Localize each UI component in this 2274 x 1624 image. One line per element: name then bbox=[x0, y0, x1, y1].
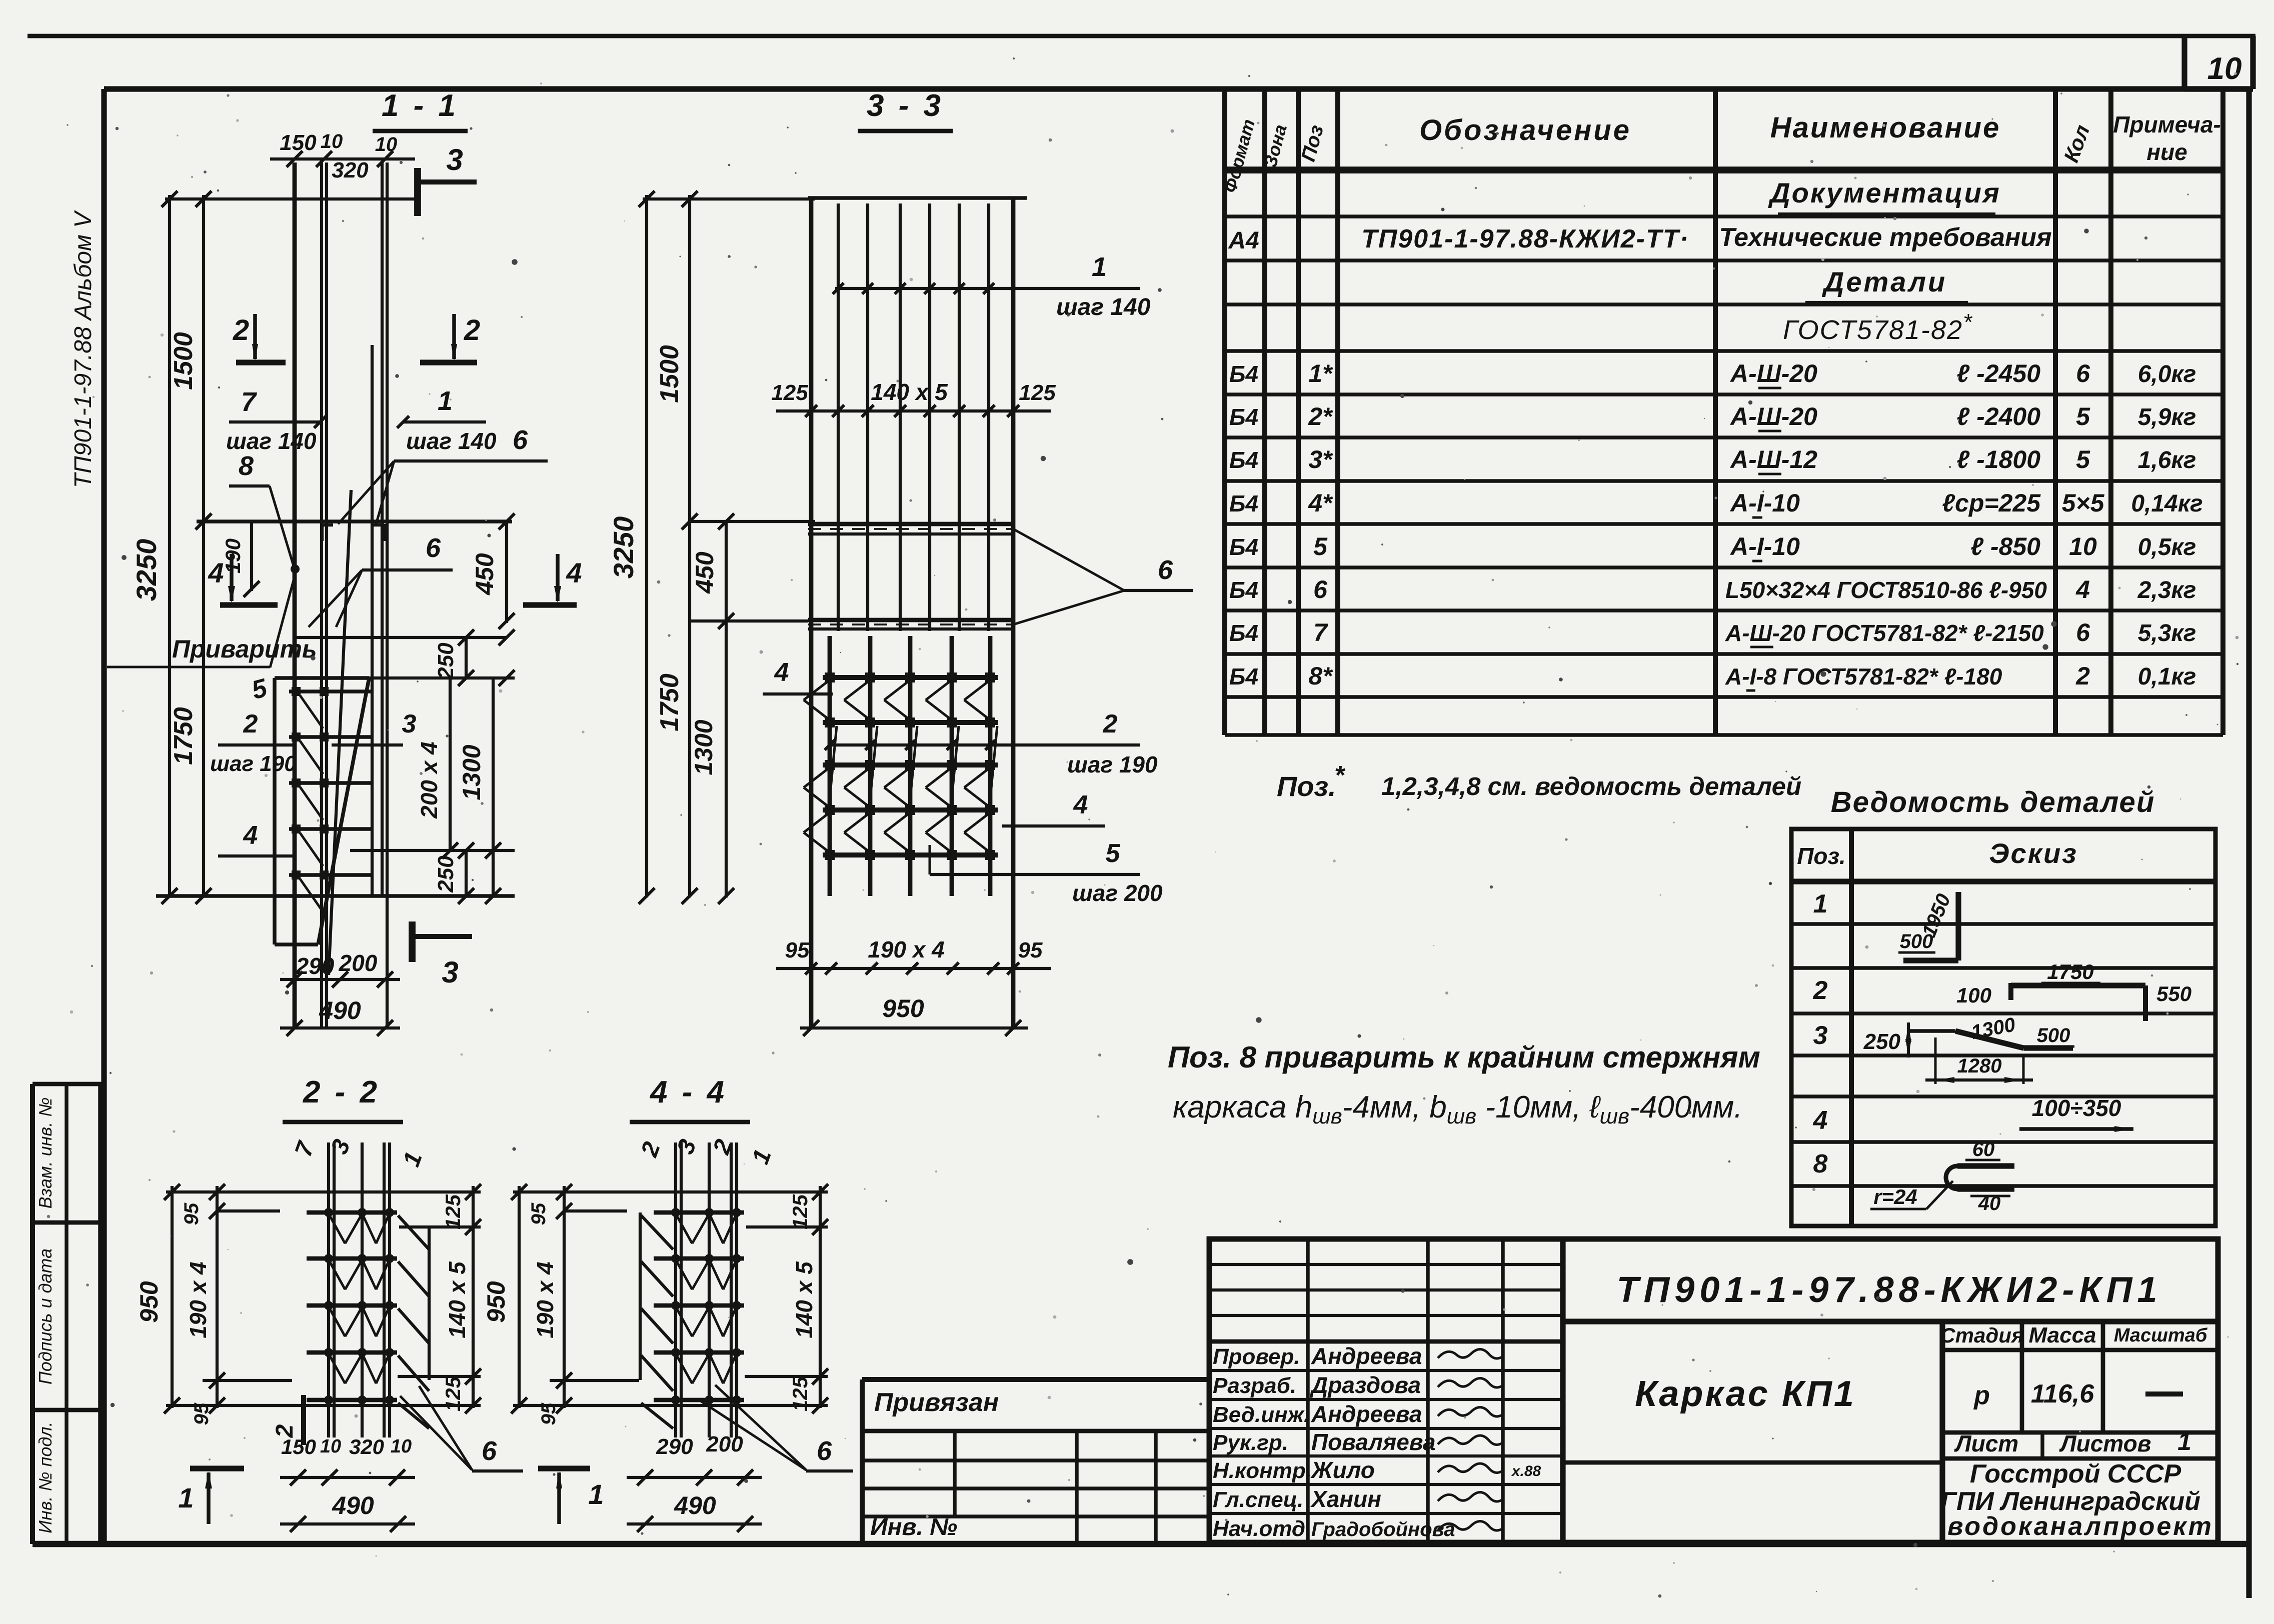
svg-text:Б4: Б4 bbox=[1229, 577, 1258, 603]
svg-text:Разраб.: Разраб. bbox=[1213, 1373, 1296, 1398]
svg-text:5: 5 bbox=[2076, 445, 2090, 473]
svg-text:1,6кг: 1,6кг bbox=[2138, 447, 2196, 473]
svg-text:5,9кг: 5,9кг bbox=[2138, 404, 2196, 430]
svg-text:6: 6 bbox=[426, 533, 441, 563]
svg-text:950: 950 bbox=[482, 1281, 510, 1323]
svg-text:250: 250 bbox=[1863, 1029, 1901, 1054]
svg-text:ТП901-1-97.88-КЖИ2-КП1: ТП901-1-97.88-КЖИ2-КП1 bbox=[1617, 1270, 2162, 1310]
svg-text:Каркас КП1: Каркас КП1 bbox=[1635, 1374, 1856, 1414]
svg-text:шаг 190: шаг 190 bbox=[1067, 751, 1158, 777]
svg-text:490: 490 bbox=[674, 1491, 716, 1519]
svg-text:А-Ш-12: А-Ш-12 bbox=[1729, 445, 1817, 473]
svg-text:450: 450 bbox=[691, 551, 719, 594]
svg-text:Листов: Листов bbox=[2059, 1430, 2151, 1456]
svg-text:Жило: Жило bbox=[1310, 1457, 1375, 1483]
svg-text:1: 1 bbox=[1092, 252, 1107, 282]
svg-text:95: 95 bbox=[191, 1402, 213, 1425]
svg-text:Поваляева: Поваляева bbox=[1311, 1429, 1436, 1455]
svg-text:10: 10 bbox=[321, 130, 343, 152]
svg-text:Б4: Б4 bbox=[1229, 663, 1258, 689]
svg-text:2: 2 bbox=[233, 314, 249, 346]
svg-text:шаг 140: шаг 140 bbox=[226, 428, 317, 454]
svg-text:Детали: Детали bbox=[1822, 266, 1947, 297]
svg-text:ТП901-1-97.88-КЖИ2-ТТ·: ТП901-1-97.88-КЖИ2-ТТ· bbox=[1361, 224, 1689, 253]
svg-text:2: 2 bbox=[1103, 709, 1118, 738]
svg-text:8*: 8* bbox=[1308, 662, 1333, 690]
svg-text:190 х 4: 190 х 4 bbox=[185, 1261, 211, 1338]
svg-text:Провер.: Провер. bbox=[1213, 1344, 1300, 1369]
svg-text:Инв. №: Инв. № bbox=[870, 1514, 957, 1540]
svg-text:Госстрой СССР: Госстрой СССР bbox=[1970, 1459, 2181, 1488]
svg-text:8: 8 bbox=[239, 451, 254, 481]
svg-text:8: 8 bbox=[1813, 1149, 1828, 1178]
svg-text:Нач.отд.: Нач.отд. bbox=[1213, 1516, 1311, 1541]
svg-text:3: 3 bbox=[442, 955, 458, 989]
svg-text:Поз. 8 приварить к крайни: Поз. 8 приварить к крайним стержням bbox=[1168, 1040, 1760, 1074]
svg-text:125: 125 bbox=[771, 380, 808, 405]
svg-text:6: 6 bbox=[2076, 618, 2090, 646]
svg-text:95: 95 bbox=[528, 1202, 550, 1225]
svg-text:Б4: Б4 bbox=[1229, 404, 1258, 430]
svg-text:Инв. № подл.: Инв. № подл. bbox=[35, 1421, 56, 1533]
svg-text:4: 4 bbox=[774, 658, 789, 687]
svg-text:320: 320 bbox=[332, 158, 369, 182]
svg-text:125: 125 bbox=[1019, 380, 1056, 405]
svg-text:Ведомость деталей: Ведомость деталей bbox=[1831, 786, 2155, 818]
svg-text:500: 500 bbox=[1900, 930, 1933, 952]
svg-text:шаг 190: шаг 190 bbox=[210, 751, 297, 776]
svg-text:950: 950 bbox=[882, 994, 924, 1022]
svg-text:3250: 3250 bbox=[131, 539, 162, 601]
svg-text:Поз.: Поз. bbox=[1277, 770, 1336, 802]
svg-text:ℓср=225: ℓср=225 bbox=[1942, 489, 2041, 517]
svg-text:1: 1 bbox=[438, 386, 453, 416]
svg-text:ℓ -2400: ℓ -2400 bbox=[1956, 402, 2040, 430]
svg-text:1*: 1* bbox=[1308, 359, 1333, 387]
svg-text:450: 450 bbox=[471, 553, 499, 595]
svg-text:Гл.спец.: Гл.спец. bbox=[1213, 1487, 1303, 1512]
svg-text:Эскиз: Эскиз bbox=[1989, 837, 2078, 869]
svg-text:Технические требования: Технические требования bbox=[1719, 223, 2051, 252]
svg-text:Лист: Лист bbox=[1954, 1430, 2018, 1456]
svg-text:320: 320 bbox=[349, 1435, 384, 1458]
svg-text:4: 4 bbox=[1813, 1106, 1828, 1135]
svg-text:Н.контр.: Н.контр. bbox=[1213, 1458, 1312, 1483]
svg-text:ℓ -850: ℓ -850 bbox=[1970, 532, 2040, 560]
svg-text:Рук.гр.: Рук.гр. bbox=[1213, 1430, 1288, 1455]
svg-text:2,3кг: 2,3кг bbox=[2137, 577, 2196, 603]
svg-text:150: 150 bbox=[281, 1435, 316, 1458]
svg-text:6,0кг: 6,0кг bbox=[2138, 361, 2196, 387]
svg-text:7: 7 bbox=[1313, 618, 1328, 646]
svg-text:140 х 5: 140 х 5 bbox=[444, 1261, 470, 1338]
svg-text:95: 95 bbox=[538, 1402, 560, 1425]
svg-text:125: 125 bbox=[441, 1194, 465, 1229]
svg-text:6: 6 bbox=[1313, 575, 1328, 603]
svg-text:Б4: Б4 bbox=[1229, 361, 1258, 387]
svg-text:А-I-8 ГОСТ5781-82* ℓ-180: А-I-8 ГОСТ5781-82* ℓ-180 bbox=[1725, 663, 2002, 689]
svg-text:2: 2 bbox=[1813, 976, 1828, 1005]
svg-text:1: 1 bbox=[2177, 1427, 2191, 1455]
svg-text:1750: 1750 bbox=[655, 673, 684, 731]
svg-text:125: 125 bbox=[441, 1376, 465, 1411]
svg-text:Стадия: Стадия bbox=[1940, 1323, 2023, 1347]
svg-text:А-I-10: А-I-10 bbox=[1729, 489, 1800, 517]
svg-text:2: 2 bbox=[2075, 662, 2090, 690]
svg-text:5: 5 bbox=[1106, 839, 1121, 868]
svg-text:6: 6 bbox=[2076, 359, 2090, 387]
svg-text:Б4: Б4 bbox=[1229, 620, 1258, 646]
svg-text:Градобойнова: Градобойнова bbox=[1311, 1518, 1455, 1540]
svg-text:10: 10 bbox=[2207, 51, 2242, 86]
svg-text:95: 95 bbox=[1018, 938, 1043, 962]
svg-text:ℓ -1800: ℓ -1800 bbox=[1956, 445, 2040, 473]
svg-text:1,2,3,4,8 см. ведомость детал: 1,2,3,4,8 см. ведомость деталей bbox=[1381, 772, 1801, 800]
svg-text:100÷350: 100÷350 bbox=[2032, 1095, 2121, 1121]
svg-text:Андреева: Андреева bbox=[1311, 1401, 1422, 1427]
svg-text:290: 290 bbox=[296, 953, 335, 979]
svg-text:А-Ш-20: А-Ш-20 bbox=[1729, 402, 1817, 430]
svg-text:6: 6 bbox=[1158, 555, 1173, 585]
svg-text:4: 4 bbox=[1073, 790, 1088, 819]
svg-text:2: 2 bbox=[464, 314, 480, 346]
svg-text:Б4: Б4 bbox=[1229, 447, 1258, 473]
svg-text:Вед.инж.: Вед.инж. bbox=[1213, 1402, 1310, 1427]
svg-text:10: 10 bbox=[2069, 532, 2097, 560]
svg-text:0,14кг: 0,14кг bbox=[2131, 490, 2202, 517]
svg-text:шаг 200: шаг 200 bbox=[1072, 880, 1163, 906]
svg-text:ℓ -2450: ℓ -2450 bbox=[1956, 359, 2040, 387]
svg-text:3 - 3: 3 - 3 bbox=[867, 88, 944, 123]
svg-text:2: 2 bbox=[243, 709, 258, 738]
svg-text:*: * bbox=[1334, 761, 1346, 790]
svg-text:1280: 1280 bbox=[1957, 1055, 2002, 1077]
svg-text:5,3кг: 5,3кг bbox=[2138, 620, 2196, 646]
svg-text:1: 1 bbox=[178, 1482, 194, 1513]
svg-text:1300: 1300 bbox=[458, 744, 486, 800]
svg-text:А4: А4 bbox=[1228, 227, 1259, 254]
svg-text:А-Ш-20: А-Ш-20 bbox=[1729, 359, 1817, 387]
svg-text:Андреева: Андреева bbox=[1311, 1343, 1422, 1369]
svg-text:х.88: х.88 bbox=[1511, 1463, 1541, 1479]
svg-text:125: 125 bbox=[788, 1194, 812, 1229]
svg-text:950: 950 bbox=[135, 1281, 163, 1323]
svg-text:2*: 2* bbox=[1308, 402, 1333, 430]
svg-text:490: 490 bbox=[332, 1491, 374, 1519]
svg-text:95: 95 bbox=[785, 938, 810, 962]
svg-text:0,1кг: 0,1кг bbox=[2138, 663, 2196, 690]
svg-text:4: 4 bbox=[243, 821, 258, 850]
svg-text:1300: 1300 bbox=[690, 719, 718, 775]
svg-text:1500: 1500 bbox=[655, 345, 684, 403]
svg-text:4: 4 bbox=[566, 557, 582, 588]
svg-text:5: 5 bbox=[2076, 402, 2090, 430]
svg-text:200: 200 bbox=[339, 950, 378, 976]
svg-text:7: 7 bbox=[241, 387, 258, 417]
svg-text:3: 3 bbox=[1813, 1021, 1828, 1050]
svg-text:Приварить: Приварить bbox=[172, 635, 317, 663]
svg-text:6: 6 bbox=[513, 425, 528, 455]
svg-text:250: 250 bbox=[434, 642, 458, 680]
svg-text:Привязан: Привязан bbox=[874, 1388, 999, 1417]
svg-text:Масштаб: Масштаб bbox=[2114, 1325, 2208, 1346]
svg-text:Обозначение: Обозначение bbox=[1419, 114, 1631, 146]
svg-text:Б4: Б4 bbox=[1229, 490, 1258, 516]
svg-text:3*: 3* bbox=[1308, 445, 1333, 473]
svg-text:60: 60 bbox=[1972, 1138, 1995, 1160]
svg-text:Драздова: Драздова bbox=[1309, 1372, 1421, 1398]
svg-text:500: 500 bbox=[2037, 1024, 2070, 1046]
svg-text:3: 3 bbox=[446, 143, 463, 176]
svg-text:190 х 4: 190 х 4 bbox=[532, 1261, 558, 1338]
svg-text:490: 490 bbox=[319, 996, 361, 1024]
svg-text:1500: 1500 bbox=[169, 332, 198, 390]
svg-text:140 х 5: 140 х 5 bbox=[871, 379, 948, 405]
svg-text:4*: 4* bbox=[1308, 489, 1333, 517]
svg-text:Масса: Масса bbox=[2028, 1323, 2096, 1347]
svg-text:10: 10 bbox=[391, 1436, 412, 1457]
svg-text:Поз.: Поз. bbox=[1797, 843, 1845, 869]
svg-text:1750: 1750 bbox=[169, 707, 198, 765]
svg-text:1 - 1: 1 - 1 bbox=[382, 88, 459, 123]
svg-text:3: 3 bbox=[402, 709, 417, 738]
svg-text:140 х 5: 140 х 5 bbox=[791, 1261, 817, 1338]
svg-text:р: р bbox=[1973, 1381, 1990, 1410]
svg-text:6: 6 bbox=[817, 1436, 832, 1466]
svg-text:125: 125 bbox=[788, 1376, 812, 1411]
svg-text:r=24: r=24 bbox=[1873, 1185, 1917, 1208]
svg-text:Ханин: Ханин bbox=[1310, 1486, 1381, 1512]
svg-text:200 х 4: 200 х 4 bbox=[416, 741, 442, 818]
svg-text:Подпись и дата: Подпись и дата bbox=[35, 1248, 56, 1384]
svg-text:100: 100 bbox=[1956, 983, 1991, 1007]
svg-text:ТП901-1-97.88 Альбом V: ТП901-1-97.88 Альбом V bbox=[70, 210, 97, 488]
svg-text:Примеча-: Примеча- bbox=[2113, 111, 2220, 137]
svg-text:Наименование: Наименование bbox=[1770, 111, 2000, 144]
svg-text:2 - 2: 2 - 2 bbox=[303, 1075, 380, 1109]
svg-text:550: 550 bbox=[2156, 982, 2191, 1005]
svg-text:Взам. инв. №: Взам. инв. № bbox=[35, 1097, 56, 1209]
svg-text:Документация: Документация bbox=[1768, 177, 2001, 208]
svg-text:200: 200 bbox=[706, 1432, 743, 1456]
svg-text:L50×32×4 ГОСТ8510-86 ℓ-950: L50×32×4 ГОСТ8510-86 ℓ-950 bbox=[1725, 577, 2047, 603]
svg-text:3250: 3250 bbox=[608, 516, 639, 579]
svg-text:А-I-10: А-I-10 bbox=[1729, 532, 1800, 560]
svg-text:150: 150 bbox=[280, 130, 317, 155]
svg-text:водоканалпроект: водоканалпроект bbox=[1947, 1512, 2213, 1541]
svg-text:5×5: 5×5 bbox=[2062, 489, 2105, 517]
svg-text:шаг 140: шаг 140 bbox=[406, 428, 497, 454]
svg-text:116,6: 116,6 bbox=[2031, 1379, 2094, 1408]
svg-text:А-Ш-20 ГОСТ5781-82* ℓ-2150: А-Ш-20 ГОСТ5781-82* ℓ-2150 bbox=[1725, 620, 2044, 646]
svg-text:Б4: Б4 bbox=[1229, 534, 1258, 560]
svg-text:1: 1 bbox=[588, 1478, 604, 1510]
svg-text:0,5кг: 0,5кг bbox=[2138, 534, 2196, 560]
svg-text:1750: 1750 bbox=[2047, 960, 2093, 983]
svg-text:290: 290 bbox=[656, 1434, 693, 1459]
svg-text:шаг 140: шаг 140 bbox=[1056, 294, 1151, 320]
svg-text:10: 10 bbox=[320, 1436, 341, 1457]
svg-text:4: 4 bbox=[208, 557, 224, 588]
svg-text:190 х 4: 190 х 4 bbox=[868, 936, 944, 962]
svg-text:5: 5 bbox=[1313, 532, 1328, 560]
svg-text:95: 95 bbox=[181, 1202, 203, 1225]
svg-text:250: 250 bbox=[434, 855, 458, 893]
svg-text:1: 1 bbox=[1813, 889, 1828, 918]
svg-text:6: 6 bbox=[482, 1436, 497, 1466]
svg-text:4 - 4: 4 - 4 bbox=[649, 1075, 727, 1109]
svg-text:4: 4 bbox=[2075, 575, 2090, 603]
